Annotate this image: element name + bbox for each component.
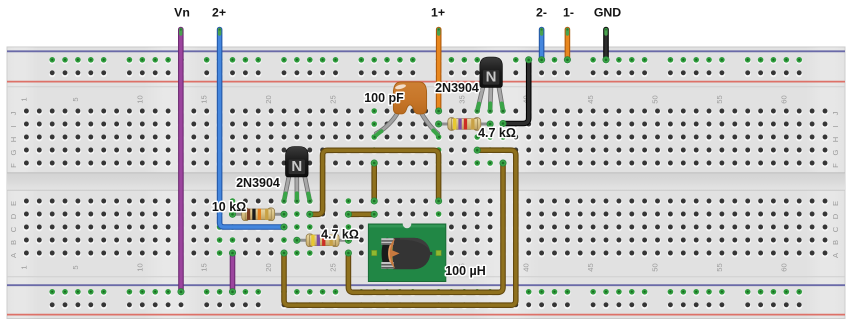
- svg-text:N: N: [291, 158, 302, 175]
- wire purple jumper col17 row A to bottom rail: [229, 250, 235, 295]
- svg-text:60: 60: [779, 95, 788, 103]
- svg-text:45: 45: [586, 263, 595, 271]
- svg-text:1: 1: [19, 265, 28, 269]
- svg-text:25: 25: [329, 263, 338, 271]
- wire 2- (blue, to top rail): [538, 30, 544, 64]
- breadboard hole grid with connected strips highlighted: [23, 57, 828, 309]
- resistor R3 4.7 k&#937; (row B, col22-col26): [294, 234, 352, 247]
- resistor R1 4.7 k&#937; (row I, col33-col37): [435, 118, 493, 131]
- inductor L1 100 &#181;H: [368, 220, 445, 282]
- svg-text:35: 35: [457, 95, 466, 103]
- svg-text:100 pF: 100 pF: [364, 91, 404, 105]
- svg-text:E: E: [831, 201, 840, 206]
- svg-text:2+: 2+: [212, 6, 226, 20]
- wire brown jumper col28 row F to row E: [371, 160, 377, 204]
- svg-text:Vn: Vn: [174, 6, 190, 20]
- svg-text:D: D: [831, 213, 840, 219]
- svg-text:2N3904: 2N3904: [435, 81, 479, 95]
- svg-text:E: E: [9, 201, 18, 206]
- svg-text:2-: 2-: [536, 6, 547, 20]
- wire 2+ (blue, down col16 then to col21 row C): [220, 30, 288, 231]
- wire Vn (purple, to bottom - rail): [178, 30, 184, 295]
- wire brown inner loop (col38 row F to col26 row A): [345, 160, 506, 292]
- capacitor C1 100 pF: [373, 82, 440, 138]
- svg-text:B: B: [9, 240, 18, 245]
- wire black bend (top rail col40 to col38 row I): [500, 57, 532, 127]
- svg-text:100 µH: 100 µH: [445, 264, 486, 278]
- svg-text:F: F: [9, 163, 18, 168]
- svg-text:1+: 1+: [431, 6, 445, 20]
- svg-text:2N3904: 2N3904: [236, 176, 280, 190]
- svg-text:C: C: [9, 226, 18, 232]
- svg-text:GND: GND: [594, 6, 621, 20]
- svg-text:20: 20: [264, 95, 273, 103]
- svg-text:1: 1: [19, 97, 28, 101]
- svg-text:5: 5: [71, 97, 80, 101]
- transistor Q1 2N3904 (left): [283, 147, 311, 203]
- transistor Q2 2N3904 (top right): [476, 57, 504, 112]
- wire GND (black, to top rail): [603, 30, 609, 64]
- svg-text:I: I: [831, 125, 840, 127]
- svg-text:55: 55: [715, 263, 724, 271]
- wire 1+ (orange, to col33 row J): [435, 30, 441, 115]
- breadboard row/column legend: [9, 95, 840, 271]
- svg-text:10 kΩ: 10 kΩ: [212, 200, 246, 214]
- resistor R2 10 k&#937; (row D, col17-col21): [229, 208, 287, 221]
- wire 1- (orange, to top rail): [564, 30, 570, 64]
- svg-text:G: G: [831, 149, 840, 155]
- svg-text:C: C: [831, 226, 840, 232]
- wire brown jumper col26 to col28 row D: [345, 211, 377, 217]
- svg-text:50: 50: [651, 263, 660, 271]
- svg-text:45: 45: [586, 95, 595, 103]
- svg-text:10: 10: [135, 95, 144, 103]
- wire brown outer loop (col36 row G to col21 row A): [281, 147, 516, 305]
- svg-text:J: J: [9, 111, 18, 115]
- svg-text:5: 5: [71, 265, 80, 269]
- svg-text:H: H: [9, 137, 18, 142]
- svg-text:H: H: [831, 137, 840, 142]
- svg-text:N: N: [486, 69, 497, 86]
- svg-text:40: 40: [522, 263, 531, 271]
- svg-text:J: J: [831, 111, 840, 115]
- svg-text:50: 50: [651, 95, 660, 103]
- svg-text:D: D: [9, 213, 18, 219]
- svg-text:15: 15: [200, 263, 209, 271]
- svg-text:20: 20: [264, 263, 273, 271]
- wire brown upper loop (col23 row D up over to col33 row E): [307, 150, 442, 217]
- svg-text:B: B: [831, 240, 840, 245]
- svg-text:55: 55: [715, 95, 724, 103]
- svg-text:60: 60: [779, 263, 788, 271]
- svg-text:1-: 1-: [563, 6, 574, 20]
- svg-text:4.7 kΩ: 4.7 kΩ: [478, 126, 516, 140]
- svg-text:G: G: [9, 149, 18, 155]
- svg-text:F: F: [831, 163, 840, 168]
- svg-text:I: I: [9, 125, 18, 127]
- svg-text:10: 10: [135, 263, 144, 271]
- svg-text:25: 25: [329, 95, 338, 103]
- svg-text:15: 15: [200, 95, 209, 103]
- svg-text:4.7 kΩ: 4.7 kΩ: [321, 228, 359, 242]
